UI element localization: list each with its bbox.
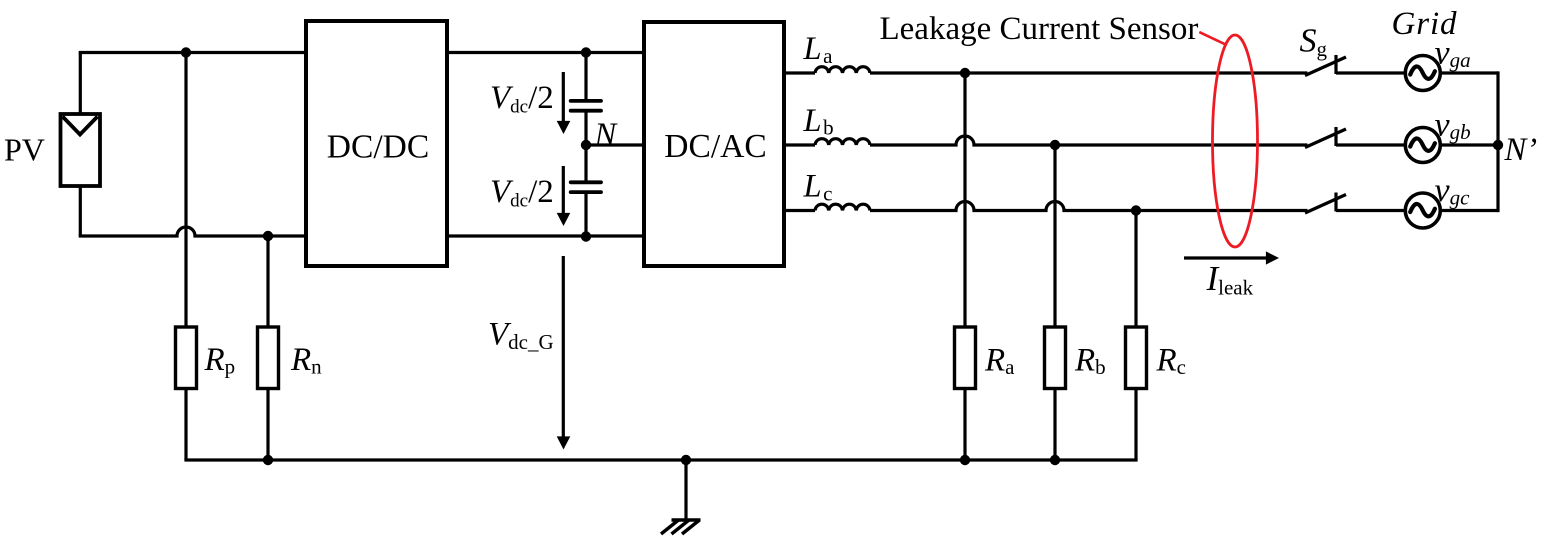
svg-text:PV: PV [4, 132, 45, 168]
node junction ground-bus [681, 455, 691, 465]
inductor Lc [784, 204, 870, 210]
arrow Vdc/2 upper [557, 72, 571, 134]
PV source PV [61, 114, 101, 186]
svg-text:Lc: Lc [803, 169, 833, 206]
wire top rail (PV to DC/DC) [79, 51, 306, 54]
svg-text:Rn: Rn [290, 342, 322, 379]
inductor Lb [784, 139, 870, 145]
ac source vga [1405, 56, 1440, 91]
capacitor C1 upper dc-link [571, 53, 601, 146]
svg-text:vgc: vgc [1435, 172, 1471, 210]
leakage current sensor ellipse [1213, 35, 1258, 247]
svg-text:Sg: Sg [1300, 23, 1328, 62]
arrow Vdc_G [557, 256, 571, 450]
node junction Ra-bus [960, 455, 970, 465]
node junction Rn-bus [263, 455, 273, 465]
svg-text:Ra: Ra [984, 343, 1015, 380]
wire Rp to ground bus [184, 389, 187, 461]
wire source C to right bus [1440, 209, 1498, 212]
node junction phase A drop [960, 68, 970, 78]
wire PV top riser [79, 53, 82, 115]
wire vertical drop to Rp [184, 53, 187, 328]
svg-text:Lb: Lb [803, 103, 834, 140]
node junction phase C drop [1131, 205, 1141, 215]
svg-text:N: N [594, 117, 619, 153]
wire Rb to ground bus [1053, 389, 1056, 461]
node junction top mid [581, 47, 591, 57]
resistor Rb [1045, 327, 1066, 389]
ground symbol [661, 460, 701, 534]
arrow Vdc/2 lower [557, 166, 571, 226]
wire PV bottom riser [79, 186, 82, 236]
wire switch C to source [1336, 209, 1405, 212]
wire bottom rail left with hop at x=186 [79, 227, 306, 236]
wire phase A (inductor to switch) [870, 71, 1308, 74]
node junction bottom mid [581, 231, 591, 241]
converter block DC/DC [306, 21, 447, 266]
wire Rc to ground bus [1134, 389, 1137, 461]
node junction Rb-bus [1050, 455, 1060, 465]
ac source vgb [1405, 128, 1440, 163]
svg-text:Rb: Rb [1074, 343, 1106, 380]
wire drop phase C to Rc [1134, 211, 1137, 328]
wire node N to DC/AC [586, 143, 644, 146]
svg-text:Ileak: Ileak [1206, 259, 1254, 300]
svg-text:DC/AC: DC/AC [664, 128, 766, 165]
wire Rn to ground bus [266, 389, 269, 461]
wire ground bus [184, 458, 1137, 461]
resistor Ra [955, 327, 976, 389]
svg-text:Leakage Current Sensor: Leakage Current Sensor [880, 11, 1199, 47]
svg-text:Vdc/2: Vdc/2 [490, 174, 554, 211]
resistor Rc [1126, 327, 1147, 389]
svg-text:N’: N’ [1504, 132, 1538, 168]
svg-text:Rc: Rc [1156, 343, 1187, 380]
resistor Rn [258, 327, 279, 389]
wire switch B to source [1336, 143, 1405, 146]
node junction top-left [181, 47, 191, 57]
wire vertical drop to Rn [266, 236, 269, 327]
svg-text:Vdc/2: Vdc/2 [490, 80, 554, 117]
node junction phase B drop [1050, 140, 1060, 150]
ac source vgc [1405, 193, 1440, 228]
svg-text:vgb: vgb [1435, 107, 1471, 145]
wire phase B with hop at x=965 [870, 136, 1308, 145]
leader line to sensor [1199, 32, 1225, 44]
inductor La [784, 67, 870, 73]
wire switch A to source [1336, 71, 1405, 74]
switch Sg phase A [1305, 55, 1346, 76]
resistor Rp [176, 327, 197, 389]
converter block DC/AC [644, 22, 784, 266]
svg-text:DC/DC: DC/DC [327, 129, 429, 166]
svg-text:Rp: Rp [204, 342, 236, 379]
wire right bus N' [1496, 71, 1499, 212]
wire bottom rail (DC/DC to DC/AC) [447, 234, 644, 237]
svg-text:La: La [803, 31, 834, 68]
wire phase C with hops at x=965 and x=1055 [870, 202, 1308, 211]
node junction N' [1493, 140, 1503, 150]
switch Sg phase B [1305, 127, 1346, 148]
wire drop phase B to Rb [1053, 145, 1056, 327]
node junction bottom-left [263, 231, 273, 241]
wire source A to right bus [1440, 71, 1498, 74]
node N junction [581, 140, 591, 150]
switch Sg phase C [1305, 193, 1346, 214]
wire top rail (DC/DC to DC/AC) [447, 51, 644, 54]
capacitor C2 lower dc-link [571, 145, 601, 236]
wire source B to right bus [1440, 143, 1498, 146]
wire drop phase A to Ra [963, 73, 966, 327]
wire Ra to ground bus [963, 389, 966, 461]
svg-text:Vdc_G: Vdc_G [488, 316, 554, 353]
arrow Ileak [1184, 251, 1279, 264]
